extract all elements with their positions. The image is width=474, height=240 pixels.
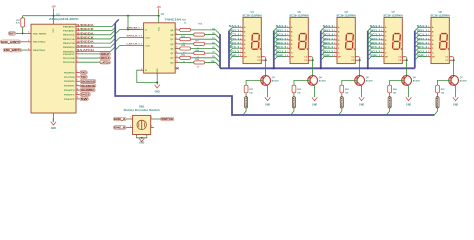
wire PB6 to bus	[79, 47, 115, 52]
svg-text:SD1.1: SD1.1	[323, 39, 335, 41]
svg-text:Q3: Q3	[272, 77, 276, 79]
svg-text:RST: RST	[9, 31, 15, 35]
node bus U5	[273, 67, 275, 69]
svg-text:GND: GND	[312, 105, 317, 107]
wire segment C U6	[321, 36, 334, 40]
transistor Q5	[355, 76, 365, 86]
node bus U6	[320, 67, 322, 69]
label TXD	[80, 75, 88, 79]
label ENC_A/INT0	[0, 40, 20, 44]
resistor R15	[180, 56, 191, 59]
wire SWITCH to SW1	[154, 118, 161, 120]
svg-text:U5: U5	[298, 11, 302, 14]
pin F U5	[287, 47, 290, 49]
pin G U5	[287, 51, 290, 53]
wire base Q3	[246, 80, 262, 85]
pin D U8	[428, 39, 431, 41]
svg-text:SA1.1: SA1.1	[276, 25, 288, 28]
wire segment E U6	[321, 44, 334, 48]
svg-text:12: 12	[77, 97, 79, 99]
ground U3	[155, 85, 160, 88]
svg-text:VCC: VCC	[158, 26, 160, 31]
pin PD2	[76, 61, 79, 63]
svg-text:12: 12	[176, 56, 178, 58]
svg-text:4.7k: 4.7k	[16, 22, 21, 25]
wire U3 ground loop	[137, 70, 157, 82]
bus top hook	[115, 19, 119, 23]
svg-text:SF1.1: SF1.1	[229, 47, 241, 49]
wire PB0 to bus	[79, 23, 115, 26]
label SW	[80, 97, 89, 101]
pin G U7	[381, 51, 384, 53]
svg-text:ENC_A: ENC_A	[114, 117, 126, 121]
pin 4 PA2/_RESET	[28, 32, 31, 34]
resistor R12	[180, 28, 191, 31]
svg-text:ENC_A/INT0: ENC_A/INT0	[1, 40, 20, 44]
wire segment D U8	[415, 40, 428, 44]
bus riser U5	[273, 31, 275, 69]
wire U3 QD to resistor	[178, 43, 193, 45]
svg-text:SB1.1: SB1.1	[370, 30, 382, 32]
wire base Q7	[438, 80, 451, 85]
wire segment DP U8	[415, 57, 428, 61]
svg-text:SD1.1: SD1.1	[229, 39, 241, 41]
pin B U5	[287, 30, 290, 32]
wire base Q6	[390, 80, 404, 85]
ground SW1	[139, 138, 144, 141]
wire ENC_B	[22, 49, 28, 51]
svg-text:SC1.1: SC1.1	[229, 35, 241, 37]
pin E U5	[287, 43, 290, 45]
pin CC1 U4	[261, 56, 265, 58]
bus riser U6	[320, 31, 322, 69]
wire collector Q6	[406, 60, 408, 75]
svg-text:SDP1.1: SDP1.1	[370, 56, 382, 58]
svg-text:SC39-11SRWA: SC39-11SRWA	[430, 15, 450, 18]
pin PD4/T0	[76, 89, 79, 91]
svg-text:SC1.1: SC1.1	[417, 35, 429, 37]
wire DIG5A to bus	[434, 108, 437, 115]
svg-text:PB2/OC0A: PB2/OC0A	[63, 34, 75, 37]
node CC U8	[453, 59, 455, 61]
svg-text:Q4: Q4	[319, 76, 323, 79]
svg-text:1C: 1C	[212, 38, 215, 40]
wire emitter Q4	[314, 86, 316, 97]
wire segment DP U6	[321, 57, 334, 61]
pin DP U4	[240, 56, 243, 58]
label LATCH	[100, 60, 111, 64]
svg-text:10k: 10k	[249, 93, 253, 95]
wire segment C U7	[368, 36, 381, 40]
svg-text:SC39-11SRWA: SC39-11SRWA	[383, 15, 403, 18]
svg-text:R16: R16	[198, 24, 203, 26]
svg-text:BC547: BC547	[272, 79, 280, 82]
svg-text:PD1/TXD: PD1/TXD	[64, 77, 75, 79]
svg-text:PB3/OC1A: PB3/OC1A	[63, 38, 75, 41]
wire ENC_A	[21, 41, 28, 43]
ic U2 ATtiny2313	[31, 24, 76, 113]
svg-text:4: 4	[77, 59, 78, 62]
pin D U7	[381, 39, 384, 41]
svg-text:DIG1A: DIG1A	[245, 97, 248, 108]
wire 1DP to bus	[205, 62, 220, 66]
pin C U5	[287, 35, 290, 37]
pin PB5	[76, 46, 79, 48]
wire emitter Q3	[267, 86, 269, 97]
svg-text:6: 6	[176, 42, 177, 44]
resistor R22	[292, 85, 296, 93]
svg-text:DIG4/MOSI: DIG4/MOSI	[81, 84, 96, 88]
svg-text:Q5: Q5	[366, 77, 370, 79]
svg-text:TXD: TXD	[81, 75, 87, 79]
svg-text:10: 10	[176, 47, 178, 49]
svg-text:GND: GND	[406, 105, 411, 107]
pin 5 SW1	[146, 135, 148, 137]
svg-text:DIG2A: DIG2A	[293, 97, 296, 108]
resistor R24	[388, 85, 392, 93]
wire resistor to label Q7	[437, 93, 439, 97]
pin QF U3	[175, 52, 178, 54]
svg-text:SE1.1: SE1.1	[323, 43, 335, 45]
wire segment A U8	[415, 27, 428, 31]
pin D U6	[334, 39, 337, 41]
svg-text:+5V: +5V	[51, 6, 56, 9]
pin PD6/ICP	[76, 98, 79, 100]
svg-text:R23: R23	[345, 89, 350, 91]
pin CC2 U5	[308, 59, 312, 61]
pin F U7	[381, 47, 384, 49]
svg-text:R12: R12	[182, 19, 187, 21]
display U8	[431, 17, 449, 63]
svg-text:SC1.1: SC1.1	[370, 35, 382, 37]
svg-text:PD2/INT0: PD2/INT0	[64, 81, 75, 83]
node +5V junction	[53, 15, 55, 17]
pin PB4	[76, 42, 79, 44]
svg-text:R22: R22	[297, 89, 302, 91]
svg-text:U3: U3	[161, 14, 165, 16]
pin PD3/INT1	[76, 85, 79, 87]
svg-text:4: 4	[176, 32, 177, 35]
svg-text:1DP: 1DP	[211, 61, 216, 63]
svg-text:SE1.1: SE1.1	[229, 43, 241, 45]
seven-segment glyph U7	[393, 34, 401, 50]
wire 1B to bus	[205, 35, 220, 40]
node bus U7	[367, 67, 369, 69]
svg-text:SD1.1: SD1.1	[276, 39, 288, 41]
svg-text:LATCH: LATCH	[101, 60, 110, 64]
label DIG2A	[292, 97, 295, 108]
svg-text:Rotary Encoder Switch: Rotary Encoder Switch	[124, 109, 161, 112]
transistor Q7	[449, 76, 459, 86]
resistor R18	[194, 52, 205, 55]
wire 1A to bus	[191, 30, 220, 35]
node +5V branch junction	[127, 15, 129, 17]
label RXD	[80, 71, 88, 75]
wire segment B U7	[368, 31, 381, 35]
wire ENC_B to SW1	[126, 127, 129, 129]
wire collector Q5	[359, 60, 361, 75]
wire segment G U8	[415, 52, 428, 56]
svg-text:QD: QD	[170, 44, 174, 46]
svg-text:SD1.1: SD1.1	[417, 39, 429, 41]
wire segment E U7	[368, 44, 381, 48]
wire PB4 to bus	[79, 38, 115, 43]
svg-text:SA1.1: SA1.1	[370, 25, 382, 28]
svg-text:R25: R25	[441, 89, 446, 91]
wire U3 QB to resistor	[178, 34, 193, 36]
svg-text:2/DIGCK: 2/DIGCK	[77, 37, 94, 40]
pin DP U8	[428, 56, 431, 58]
svg-text:10k: 10k	[441, 93, 445, 95]
pin 2 SW1	[129, 127, 132, 129]
wire segment C U5	[274, 36, 287, 40]
wire DIG2A to bus	[291, 108, 294, 115]
svg-text:2/DIGDA: 2/DIGDA	[77, 32, 94, 35]
svg-text:10k: 10k	[393, 93, 397, 95]
transistor Q4	[308, 76, 318, 86]
svg-text:SF1.1: SF1.1	[323, 47, 335, 49]
ic U3 74HC164	[144, 23, 176, 73]
pin PB1	[76, 30, 79, 32]
resistor R11	[22, 16, 24, 18]
svg-text:SF1.1: SF1.1	[417, 47, 429, 49]
svg-text:BC547: BC547	[460, 79, 468, 82]
pin A U4	[240, 26, 243, 28]
svg-text:R11: R11	[16, 20, 21, 22]
wire CC junction U7	[406, 57, 408, 61]
node CC U4	[265, 59, 267, 61]
svg-text:BC547: BC547	[366, 79, 374, 82]
svg-text:SD1.1: SD1.1	[370, 39, 382, 41]
ground U2	[51, 122, 56, 125]
wire segment D U6	[321, 40, 334, 44]
svg-text:SDP1.1: SDP1.1	[229, 56, 241, 58]
wire 1G to bus	[191, 58, 220, 63]
pin A U8	[428, 26, 431, 28]
svg-text:GND: GND	[155, 92, 160, 94]
pin 2 B	[140, 69, 143, 71]
wire segment G U5	[274, 52, 287, 56]
wire segment A U4	[229, 27, 240, 31]
pin PD1	[76, 57, 79, 59]
pin G U8	[428, 51, 431, 53]
node CC U6	[359, 59, 361, 61]
transistor Q3	[261, 76, 271, 86]
wire segment F U6	[321, 48, 334, 52]
svg-text:SW: SW	[81, 97, 88, 101]
wire +5V rail	[23, 15, 159, 17]
pin CC1 U7	[402, 56, 406, 58]
svg-text:6: 6	[77, 71, 78, 73]
svg-text:U6: U6	[345, 11, 349, 14]
svg-text:DIG3/MISO: DIG3/MISO	[81, 88, 95, 92]
pin PD5/T1	[76, 94, 79, 96]
bus riser labels U4	[219, 34, 221, 68]
svg-text:4: 4	[28, 31, 29, 34]
wire SW1 ground	[137, 136, 147, 138]
svg-text:DIG4A: DIG4A	[388, 97, 391, 108]
svg-text:PD1/OC0B: PD1/OC0B	[63, 58, 75, 60]
pin CC2 U6	[355, 59, 359, 61]
pin 5 SW1 stub	[151, 127, 154, 129]
pin F U8	[428, 47, 431, 49]
pin PD0/RXD	[76, 72, 79, 74]
wire emitter Q7	[455, 86, 457, 97]
svg-text:Q6: Q6	[413, 77, 417, 79]
display U4	[243, 17, 261, 63]
bus riser U8	[414, 31, 416, 69]
svg-text:ENC_B: ENC_B	[114, 126, 125, 130]
pin DP U7	[381, 56, 384, 58]
wire emitter Q6	[408, 86, 410, 97]
wire segment A U6	[321, 27, 334, 31]
svg-text:3: 3	[176, 28, 177, 30]
wire segment C U8	[415, 36, 428, 40]
svg-text:SRDAT.1: SRDAT.1	[127, 26, 142, 29]
svg-text:PD2/OC0A: PD2/OC0A	[63, 61, 75, 64]
svg-text:5: 5	[151, 126, 152, 128]
svg-text:U4: U4	[251, 11, 255, 14]
resistor R13	[180, 38, 191, 41]
pin B U8	[428, 30, 431, 32]
svg-text:1k: 1k	[184, 22, 187, 24]
pin A U5	[287, 26, 290, 28]
svg-text:11: 11	[77, 93, 79, 95]
svg-text:SE1.1: SE1.1	[276, 43, 288, 45]
pin 4 SW1	[136, 135, 138, 137]
pin 5 PA1/XTAL2	[28, 41, 31, 43]
wire U3 QE to resistor	[178, 48, 179, 50]
wire U3 input A from bus	[116, 30, 140, 34]
svg-text:CLK: CLK	[145, 37, 150, 39]
wire segment G U4	[229, 52, 240, 56]
pin F U4	[240, 47, 243, 49]
pin C U4	[240, 35, 243, 37]
wire SRCLK	[79, 57, 99, 59]
wire segment F U8	[415, 48, 428, 52]
label SWITCH	[161, 117, 175, 121]
svg-text:PA1/XTAL2: PA1/XTAL2	[33, 41, 46, 44]
resistor R19	[194, 61, 205, 64]
svg-text:7: 7	[77, 75, 78, 77]
wire U3 clear from bus	[116, 46, 140, 50]
pin PD2/INT0	[76, 80, 79, 82]
wire DIG3A to bus	[339, 108, 342, 115]
resistor R17	[194, 42, 205, 45]
node U3 gnd junction	[156, 82, 158, 84]
pin 6 PA0/XTAL1	[28, 49, 31, 51]
wire segment E U5	[274, 44, 287, 48]
svg-text:U8: U8	[439, 11, 443, 14]
pin QD U3	[175, 43, 178, 45]
wire U3 QH to resistor	[178, 61, 193, 63]
svg-text:GND: GND	[139, 143, 144, 145]
ground Q4	[312, 97, 317, 100]
pin 1 A	[140, 29, 143, 31]
label ENC_B/INT1	[3, 48, 22, 52]
wire 1F to bus	[205, 53, 220, 58]
bus riser U7	[367, 31, 369, 69]
pin PB3	[76, 38, 79, 40]
svg-text:GND: GND	[453, 105, 458, 107]
svg-text:SG1.1: SG1.1	[276, 51, 288, 53]
pin QG U3	[175, 57, 178, 59]
wire resistor to label Q5	[341, 93, 343, 97]
pin PB6	[76, 50, 79, 52]
ground Q6	[406, 97, 411, 100]
pin E U6	[334, 43, 337, 45]
svg-text:2: 2	[77, 52, 78, 54]
pin QB U3	[175, 34, 178, 36]
svg-text:3: 3	[77, 56, 78, 58]
display U5	[290, 17, 308, 63]
ground Q3	[265, 97, 270, 100]
pin DP U5	[287, 56, 290, 58]
svg-text:10: 10	[77, 88, 79, 90]
svg-text:SB1.1: SB1.1	[417, 30, 429, 32]
label SRCLK	[100, 56, 111, 60]
resistor R14	[180, 47, 191, 50]
svg-text:PB0/AIN0: PB0/AIN0	[63, 25, 75, 28]
svg-text:LATCH.1: LATCH.1	[127, 42, 142, 45]
pin QA U3	[175, 29, 178, 31]
svg-text:SDP1.1: SDP1.1	[276, 56, 288, 58]
svg-text:SC39-11SRWA: SC39-11SRWA	[336, 15, 356, 18]
svg-text:SA1.1: SA1.1	[417, 25, 429, 28]
svg-text:SC1.1: SC1.1	[276, 35, 288, 37]
wire segment D U7	[368, 40, 381, 44]
svg-text:9: 9	[77, 84, 78, 86]
svg-text:QB: QB	[170, 34, 174, 36]
wire LATCH	[79, 61, 99, 63]
node RST junction	[22, 32, 24, 34]
bus segment horizontal	[220, 67, 415, 69]
label DIG4/MOSI	[80, 84, 96, 88]
wire segment F U4	[229, 48, 240, 52]
pin QH U3	[175, 61, 178, 63]
wire DIG4A to bus	[387, 108, 390, 115]
wire segment DP U4	[229, 57, 240, 61]
resistor R21	[244, 85, 248, 93]
wire resistor to label Q3	[245, 93, 247, 97]
svg-text:GND: GND	[53, 117, 55, 122]
wire base Q4	[294, 80, 309, 85]
svg-text:1B: 1B	[212, 33, 215, 35]
bus main	[115, 23, 434, 115]
seven-segment glyph U8	[440, 34, 448, 50]
pin B U7	[381, 30, 384, 32]
wire segment D U5	[274, 40, 287, 44]
pin C U7	[381, 35, 384, 37]
pin D U4	[240, 39, 243, 41]
svg-text:RXD: RXD	[81, 71, 87, 75]
wire U3 QG to resistor	[178, 57, 179, 59]
svg-text:ENC_B/INT1: ENC_B/INT1	[4, 48, 21, 52]
svg-text:PD3/INT1: PD3/INT1	[64, 86, 75, 88]
label DIG2	[80, 93, 91, 97]
svg-text:CLR: CLR	[145, 45, 150, 47]
pin 10 GND	[52, 113, 54, 116]
pin F U6	[334, 47, 337, 49]
label ENC_A	[113, 117, 126, 121]
wire segment F U5	[274, 48, 287, 52]
bus riser U4	[228, 31, 230, 69]
svg-text:QG: QG	[170, 58, 174, 60]
pin PD0	[76, 53, 79, 55]
svg-text:GND: GND	[51, 128, 56, 130]
pin B U6	[334, 30, 337, 32]
wire U3 QC to resistor	[178, 38, 179, 40]
